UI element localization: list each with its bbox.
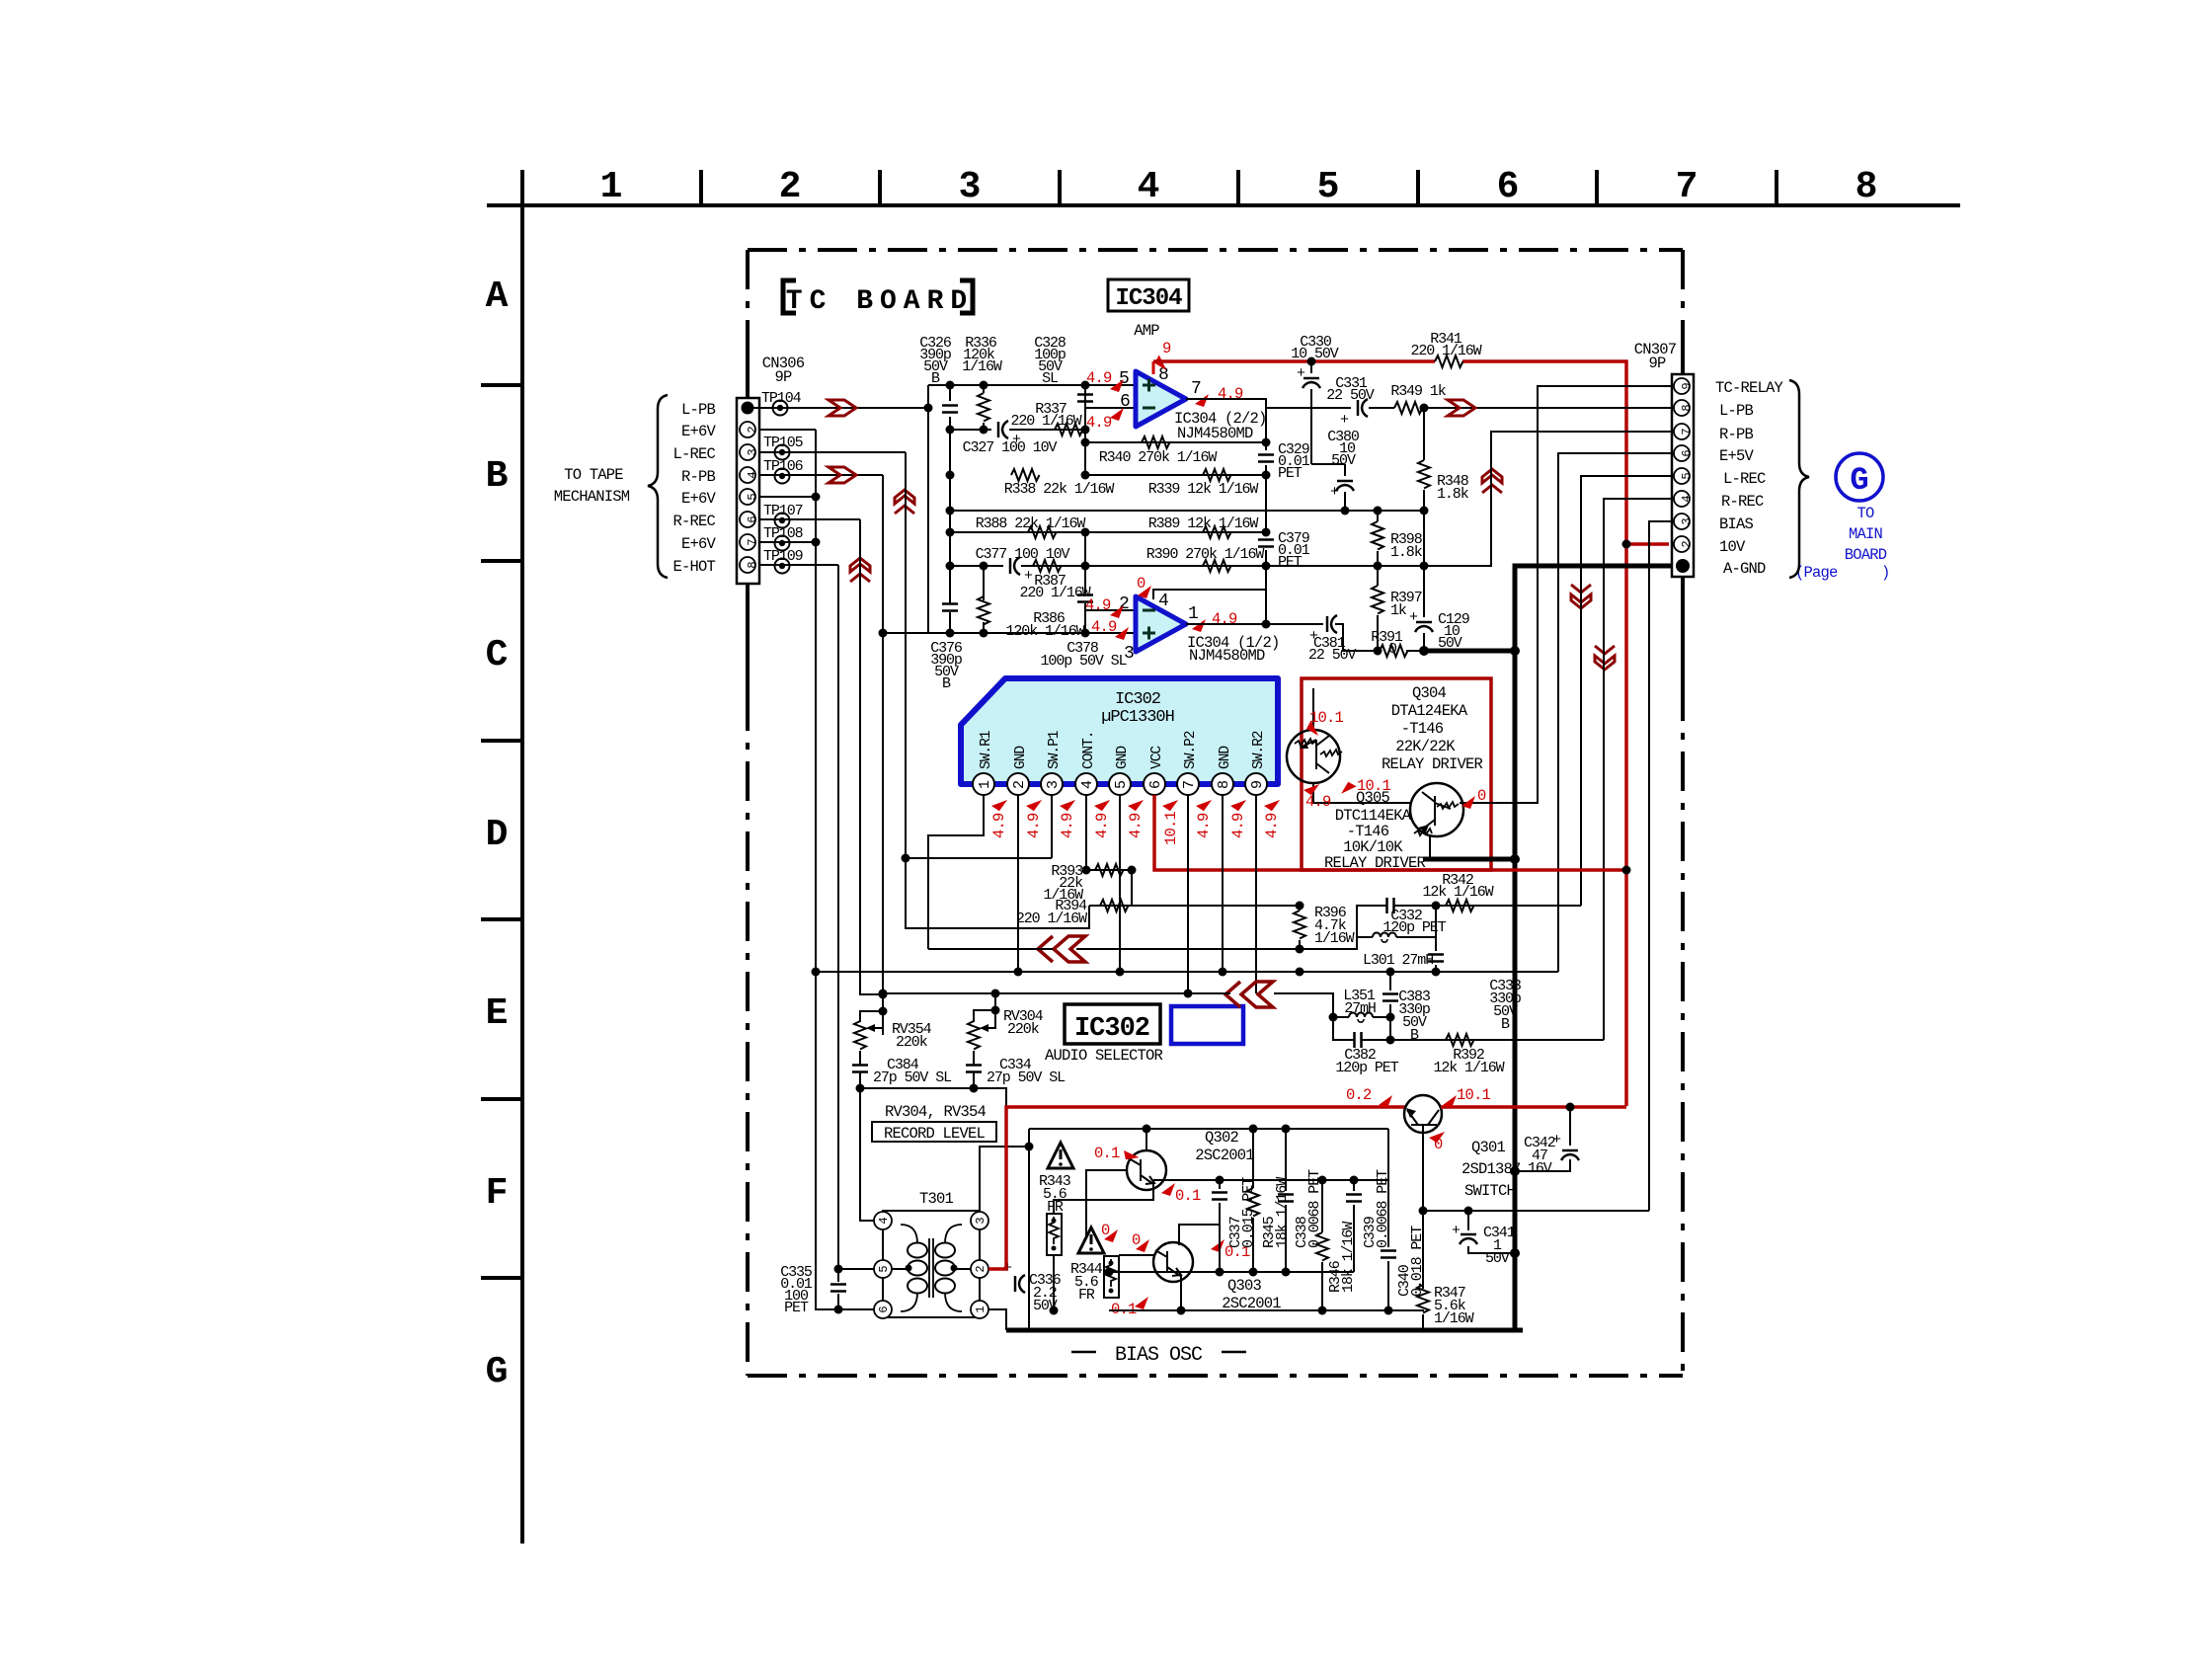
svg-text:L-PB: L-PB — [681, 401, 716, 419]
svg-text:TP104: TP104 — [761, 390, 802, 407]
svg-text:10.1: 10.1 — [1457, 1086, 1491, 1104]
TC board title brackets — [783, 280, 973, 313]
svg-text:5: 5 — [1317, 166, 1340, 208]
svg-text:TP107: TP107 — [763, 503, 803, 519]
capacitor C330 — [1311, 361, 1345, 464]
bias mid rail — [1109, 1309, 1424, 1311]
T301 terminal 3 — [971, 1212, 988, 1229]
wire L-REC riser x917 — [906, 452, 1089, 928]
svg-text:GND: GND — [1013, 747, 1029, 769]
svg-text:0.1: 0.1 — [1094, 1145, 1120, 1162]
resistor R349 — [1394, 402, 1423, 414]
svg-text:4.9: 4.9 — [1091, 618, 1117, 636]
svg-text:4.9: 4.9 — [1305, 793, 1331, 811]
op2 pin4 stub — [1153, 590, 1266, 599]
svg-text:27p 50V SL: 27p 50V SL — [873, 1069, 952, 1086]
wire op2 minus — [1085, 609, 1136, 611]
node L-PB riser — [927, 385, 929, 633]
IC302 pin9 wire — [1255, 795, 1257, 993]
wire BIAS pin3 — [1649, 521, 1673, 1211]
CN306 pin 5 — [740, 489, 759, 505]
vertical x1099 upper — [1084, 385, 1086, 475]
brace to main board — [1789, 380, 1809, 578]
capacitor C335 — [830, 1285, 846, 1292]
T301 terminal 6 — [874, 1301, 892, 1318]
svg-text:BIAS OSC: BIAS OSC — [1115, 1344, 1203, 1367]
svg-text:5: 5 — [1113, 780, 1130, 789]
wire R-REC pin6 — [759, 518, 860, 520]
svg-text:8: 8 — [1216, 780, 1232, 789]
svg-text:4.9: 4.9 — [990, 813, 1008, 838]
svg-text:0.2: 0.2 — [1346, 1086, 1372, 1104]
CN307 pin 4 — [1674, 491, 1694, 507]
IC302 pin1 wire — [928, 795, 984, 949]
svg-text:4: 4 — [746, 471, 759, 478]
svg-text:4.9: 4.9 — [1085, 596, 1111, 614]
wire E+6V pin2 — [759, 429, 816, 431]
svg-text:PET: PET — [784, 1300, 809, 1316]
capacitor C338 — [1285, 1129, 1287, 1272]
CN307 pin 7 — [1674, 424, 1694, 439]
rail y573 right — [1266, 432, 1673, 566]
svg-text:220 1/16W: 220 1/16W — [1010, 413, 1081, 430]
CN306 pin 8 — [740, 557, 759, 573]
resistor R392 — [1390, 1039, 1604, 1041]
CN306 pin 4 — [740, 467, 759, 483]
transistor Q301 — [1404, 1095, 1442, 1133]
svg-text:10 50V: 10 50V — [1291, 346, 1339, 362]
red wire VCC riser — [1624, 544, 1628, 1106]
resistor R338 — [1011, 469, 1040, 481]
svg-text:B: B — [942, 675, 951, 692]
svg-text:4.9: 4.9 — [1127, 813, 1145, 838]
capacitor C328 — [1084, 385, 1086, 409]
wire minus input op1 — [1085, 407, 1136, 409]
svg-text:6: 6 — [1120, 392, 1131, 412]
resistor R337 — [1055, 424, 1083, 436]
wire E+5V pin6 — [1558, 453, 1673, 972]
svg-text:SL: SL — [1042, 370, 1059, 387]
capacitor C377 — [1010, 557, 1020, 575]
svg-text:4.9: 4.9 — [1218, 385, 1243, 403]
CN307 pin 6 — [1674, 445, 1694, 461]
IC302 pin2 wire — [1017, 795, 1019, 972]
resistor R390 — [1203, 560, 1231, 572]
svg-text:BOARD: BOARD — [1845, 546, 1887, 564]
potentiometer RV304 — [974, 993, 995, 1088]
op2 output wire — [1186, 623, 1323, 625]
svg-text:+: + — [1024, 568, 1033, 585]
test point TP105 — [775, 445, 790, 460]
svg-text:TO: TO — [1856, 505, 1874, 522]
svg-text:6: 6 — [1147, 780, 1164, 789]
svg-text:12k 1/16W: 12k 1/16W — [1433, 1060, 1504, 1076]
capacitor C384 — [852, 1066, 868, 1072]
node line C377 R387 R390 — [950, 565, 1266, 567]
resistor R391 — [1335, 624, 1424, 651]
frame ruler top line — [487, 203, 1960, 207]
wire TC-RELAY pin9 — [1462, 386, 1673, 803]
resistor R342 — [1436, 905, 1581, 907]
capacitor C334 — [966, 1066, 982, 1072]
svg-text:22 50V: 22 50V — [1326, 387, 1375, 404]
capacitor C336 — [1015, 1275, 1025, 1293]
IC302 pin8 wire — [1222, 795, 1224, 972]
svg-text:AMP: AMP — [1134, 322, 1159, 340]
svg-text:RELAY DRIVER: RELAY DRIVER — [1382, 755, 1483, 773]
resistor R347 — [1422, 1314, 1424, 1330]
svg-text:4: 4 — [1158, 592, 1169, 611]
capacitor C329 — [1258, 455, 1274, 462]
CN307 pin 9 — [1674, 378, 1694, 394]
svg-text:220 1/16W: 220 1/16W — [1016, 911, 1087, 927]
svg-text:3: 3 — [1045, 780, 1062, 789]
svg-text:6: 6 — [1680, 449, 1694, 456]
svg-text:120k 1/16W: 120k 1/16W — [1005, 623, 1084, 640]
wire E+6V pin7 — [759, 541, 816, 543]
svg-text:3: 3 — [1124, 644, 1135, 664]
capacitor C326 — [949, 385, 951, 430]
svg-text:E+6V: E+6V — [681, 535, 717, 553]
svg-text:1k: 1k — [1390, 602, 1407, 619]
connector CN307 stub — [1681, 351, 1685, 681]
resistor R339 — [1203, 469, 1231, 481]
transistor Q303 — [1153, 1242, 1193, 1282]
svg-text:NJM4580MD: NJM4580MD — [1189, 647, 1265, 665]
transistor Q302 — [1127, 1150, 1166, 1190]
svg-text:R-REC: R-REC — [1721, 493, 1764, 511]
svg-text:C: C — [486, 634, 509, 676]
svg-text:TP108: TP108 — [763, 525, 804, 542]
resistor R393 — [1086, 870, 1132, 906]
capacitor C342 — [1566, 1103, 1575, 1112]
svg-text:L-REC: L-REC — [1723, 470, 1766, 488]
TC board dashed border bottom — [748, 1374, 1683, 1378]
svg-text:18k 1/16W: 18k 1/16W — [1274, 1177, 1291, 1248]
svg-text:220 1/16W: 220 1/16W — [1410, 343, 1481, 359]
svg-text:BIAS: BIAS — [1719, 515, 1754, 533]
svg-text:PET: PET — [1278, 554, 1303, 571]
svg-text:R-REC: R-REC — [672, 513, 715, 530]
bias box left rail — [1029, 1129, 1388, 1330]
vertical x1099 lower — [1084, 532, 1086, 633]
capacitor C381 — [1327, 615, 1337, 633]
svg-text:0: 0 — [1132, 1231, 1141, 1249]
svg-text:0: 0 — [1388, 641, 1397, 658]
resistor R387 — [1033, 560, 1062, 572]
svg-text:TO TAPE: TO TAPE — [564, 466, 623, 484]
svg-text:E+6V: E+6V — [681, 490, 717, 508]
IC302 pin 6 — [1144, 773, 1165, 795]
svg-text:4.9: 4.9 — [1212, 610, 1237, 628]
svg-text:22K/22K: 22K/22K — [1395, 738, 1456, 755]
svg-text:7: 7 — [746, 538, 759, 545]
svg-text:Q301: Q301 — [1471, 1139, 1506, 1156]
svg-text:+: + — [1409, 609, 1418, 626]
frame left border line — [520, 170, 524, 1544]
svg-text:4: 4 — [1680, 495, 1694, 502]
svg-text:VCC: VCC — [1149, 746, 1165, 769]
CN307 pin name labels — [1715, 379, 1784, 578]
svg-text:1: 1 — [977, 780, 993, 789]
bias bottom bold rail — [1006, 1328, 1523, 1333]
svg-text:4.9: 4.9 — [1025, 813, 1043, 838]
svg-text:TC-RELAY: TC-RELAY — [1715, 379, 1784, 397]
arrow right R-PB — [829, 467, 856, 483]
svg-text:+: + — [1330, 484, 1339, 501]
op-amp U2 IC304 1/2 — [1136, 596, 1186, 652]
Q301 emitter wire — [1423, 1133, 1649, 1289]
svg-text:R340 270k 1/16W: R340 270k 1/16W — [1099, 449, 1218, 466]
wire E-HOT riser x849 — [838, 565, 874, 1309]
svg-text:+: + — [1297, 365, 1305, 382]
capacitor C332 — [1357, 906, 1436, 937]
IC302 pin 5 — [1109, 773, 1131, 795]
wire R-REC pin4 — [1604, 499, 1673, 1040]
svg-text:2: 2 — [746, 426, 759, 433]
left rail x962 — [949, 430, 951, 633]
svg-text:6: 6 — [746, 515, 759, 522]
svg-text:16V: 16V — [1528, 1160, 1552, 1177]
svg-text:GND: GND — [1218, 747, 1233, 769]
svg-text:SW.R2: SW.R2 — [1251, 731, 1267, 769]
bias lower rail — [1109, 1271, 1354, 1273]
svg-text:MECHANISM: MECHANISM — [554, 488, 630, 506]
svg-text:SW.P2: SW.P2 — [1183, 731, 1199, 769]
svg-text:220 1/16W: 220 1/16W — [1019, 585, 1090, 601]
svg-text:SW.P1: SW.P1 — [1047, 731, 1063, 769]
T301 terminal 4 — [874, 1212, 892, 1229]
arrow left 1 — [1038, 936, 1085, 962]
bottom bus y641 — [883, 632, 1136, 634]
svg-text:4.9: 4.9 — [1086, 414, 1112, 432]
svg-text:5: 5 — [1680, 472, 1694, 479]
svg-text:T301: T301 — [919, 1190, 954, 1208]
IC302 pin names — [979, 731, 1267, 769]
svg-text:27mH: 27mH — [1344, 1000, 1376, 1017]
svg-text:2: 2 — [1011, 780, 1028, 789]
rail y984 E+5V — [816, 971, 1558, 973]
svg-text:D: D — [486, 814, 509, 856]
IC302 pin 7 — [1177, 773, 1199, 795]
svg-text:IC304: IC304 — [1115, 285, 1182, 312]
svg-text:L301 27mH: L301 27mH — [1363, 952, 1433, 969]
svg-text:-T146: -T146 — [1401, 720, 1444, 738]
svg-text:1/16W: 1/16W — [1314, 930, 1355, 947]
column numbers — [600, 166, 1878, 208]
svg-text:Q304: Q304 — [1412, 684, 1447, 702]
svg-text:4.9: 4.9 — [1229, 813, 1247, 838]
wire L-REC pin5 — [1581, 476, 1673, 906]
transistor Q304 — [1287, 730, 1340, 783]
arrow up right — [1482, 469, 1502, 493]
svg-text:3: 3 — [746, 448, 759, 455]
svg-text:0.1: 0.1 — [1175, 1187, 1201, 1205]
resistor R343 fusible — [1047, 1214, 1062, 1255]
svg-text:100p 50V SL: 100p 50V SL — [1041, 653, 1128, 670]
resistor R340 feedback — [1085, 442, 1266, 475]
svg-text:SWITCH: SWITCH — [1464, 1182, 1516, 1200]
wire C384 C334 bottom — [860, 1088, 1006, 1106]
svg-text:A: A — [486, 276, 509, 318]
svg-text:2: 2 — [779, 166, 802, 208]
wire R-PB pin4 — [759, 474, 883, 476]
CN306 pin 6 — [740, 512, 759, 527]
svg-text:2: 2 — [1680, 540, 1694, 547]
arrow down 1 — [1571, 585, 1591, 608]
brace to tape mechanism — [648, 395, 668, 578]
svg-text:9P: 9P — [1648, 355, 1666, 372]
resistor R336 — [983, 385, 985, 430]
capacitor C379 — [1258, 540, 1274, 547]
svg-text:1/16W: 1/16W — [1434, 1310, 1474, 1327]
test point TP106 — [775, 469, 790, 484]
svg-text:(Page: (Page — [1795, 564, 1838, 582]
svg-text:7: 7 — [1191, 379, 1202, 399]
svg-text:R338 22k 1/16W: R338 22k 1/16W — [1004, 481, 1115, 498]
svg-text:C377 100 10V: C377 100 10V — [976, 546, 1070, 563]
IC302 pin 8 — [1212, 773, 1233, 795]
svg-text:TP105: TP105 — [763, 435, 804, 451]
BIAS OSC label — [1071, 1351, 1246, 1354]
red wire bias feed — [988, 1107, 1405, 1269]
G circle to main board — [1836, 453, 1883, 501]
svg-text:3: 3 — [1680, 517, 1694, 524]
IC302 pin 9 — [1245, 773, 1267, 795]
CN307 pin 1 — [1676, 559, 1690, 573]
capacitor C340 — [1387, 1129, 1389, 1310]
inductor L351 — [1333, 1016, 1390, 1018]
svg-text:RV304, RV354: RV304, RV354 — [885, 1103, 987, 1121]
svg-text:L-PB: L-PB — [1719, 402, 1754, 420]
capacitor C382 — [1333, 1017, 1390, 1040]
svg-text:10.1: 10.1 — [1162, 811, 1180, 845]
svg-text:IC302: IC302 — [1115, 690, 1160, 709]
svg-text:R388 22k 1/16W: R388 22k 1/16W — [976, 515, 1086, 532]
test point TP107 — [775, 514, 790, 528]
CN306 pin 1 — [742, 402, 754, 415]
svg-text:7: 7 — [1680, 428, 1694, 435]
svg-text:+: + — [1340, 412, 1349, 429]
right vertical x1282 — [1265, 408, 1267, 624]
Q304 emitter wire — [1312, 688, 1314, 730]
IC302 pin 2 — [1007, 773, 1029, 795]
TC board dashed border left — [746, 250, 750, 1376]
resistor R389 — [1203, 526, 1231, 538]
svg-text:R-PB: R-PB — [1719, 426, 1754, 443]
svg-text:R349 1k: R349 1k — [1390, 383, 1446, 400]
IC302 blue empty box — [1171, 1006, 1243, 1044]
svg-text:3: 3 — [959, 166, 982, 208]
svg-text:4: 4 — [1079, 780, 1096, 789]
svg-text:E+6V: E+6V — [681, 423, 717, 440]
IC302 pin7 wire — [1187, 795, 1189, 993]
svg-text:10.1: 10.1 — [1309, 709, 1344, 727]
svg-text:1: 1 — [974, 1306, 987, 1312]
capacitor C333 — [1435, 937, 1437, 972]
connector CN306 stub wires — [746, 336, 750, 691]
svg-text:Q305: Q305 — [1356, 789, 1390, 807]
svg-text:TC BOARD: TC BOARD — [786, 286, 974, 317]
T301 pin3 wire — [980, 1147, 1029, 1211]
node line C327 R337 — [950, 429, 1085, 431]
svg-text:E-HOT: E-HOT — [672, 558, 715, 576]
svg-text:GND: GND — [1115, 747, 1131, 769]
IC302 label box — [1065, 1004, 1160, 1044]
svg-text:+: + — [1452, 1223, 1461, 1239]
resistor R346 — [1321, 1180, 1323, 1310]
T301 terminal 1 — [971, 1301, 988, 1318]
svg-text:FR: FR — [1078, 1287, 1095, 1304]
IC302 pin 4 — [1075, 773, 1097, 795]
op1 pin8 stub — [1152, 361, 1155, 374]
warning triangle 2 — [1078, 1227, 1104, 1253]
svg-text:1/16W: 1/16W — [962, 358, 1002, 375]
svg-text:B: B — [1410, 1027, 1419, 1044]
red wire 9V top — [1153, 361, 1669, 544]
svg-text:4: 4 — [1138, 166, 1160, 208]
resistor R348 — [1423, 408, 1425, 566]
wire L-PB pin1 — [753, 407, 928, 409]
CN306 pin 7 — [740, 534, 759, 550]
IC302 audio selector block — [961, 678, 1278, 784]
IC302 pin 1 — [973, 773, 994, 795]
resistor R396 — [1299, 906, 1301, 949]
svg-text:1: 1 — [1188, 604, 1199, 624]
capacitor C378 — [1077, 595, 1093, 602]
wire R-PB riser x894 — [882, 475, 884, 1035]
svg-text:4.9: 4.9 — [1059, 813, 1076, 838]
transistor Q305 — [1410, 783, 1463, 836]
svg-text:SW.R1: SW.R1 — [979, 731, 994, 769]
svg-text:1: 1 — [600, 166, 623, 208]
E+5V long rail y517 — [950, 510, 1424, 512]
inductor L301 — [1357, 906, 1436, 937]
resistor R394 — [1089, 905, 1300, 907]
svg-text:TP109: TP109 — [763, 548, 803, 565]
svg-text:DTA124EKA: DTA124EKA — [1391, 702, 1468, 720]
svg-text:F: F — [486, 1172, 509, 1215]
IC302 pin4 wire — [1085, 795, 1087, 870]
svg-text:6: 6 — [1497, 166, 1520, 208]
Q305 emitter bold wire — [1429, 835, 1431, 859]
svg-text:B: B — [486, 455, 509, 498]
IC302 pin voltage labels — [990, 811, 1281, 845]
CN307 pin 3 — [1674, 514, 1694, 529]
arrow left 2 — [1225, 982, 1273, 1007]
svg-text:5: 5 — [746, 493, 759, 500]
resistor R341 — [1435, 356, 1463, 367]
capacitor C376 — [942, 604, 958, 611]
frame row ticks — [481, 385, 522, 1278]
test point TP108 — [775, 536, 790, 551]
IC302 pin6 wire red VCC — [1154, 795, 1626, 870]
svg-text:0: 0 — [1477, 787, 1486, 805]
svg-text:6: 6 — [877, 1306, 891, 1312]
IC302 pin3 wire — [1051, 795, 1053, 858]
svg-text:12k 1/16W: 12k 1/16W — [1422, 884, 1493, 901]
capacitor C339 — [1353, 1180, 1355, 1272]
svg-text:E+5V: E+5V — [1719, 447, 1755, 465]
test point TP109 — [775, 559, 790, 574]
svg-text:A-GND: A-GND — [1723, 560, 1766, 578]
wire y1019 — [883, 993, 1333, 1017]
test point TP104 — [773, 401, 788, 416]
TC board dashed border top — [748, 248, 1683, 252]
wire op1 out to pin8 — [1266, 407, 1673, 409]
svg-text:50V: 50V — [1331, 452, 1356, 469]
svg-text:9: 9 — [1680, 382, 1694, 389]
